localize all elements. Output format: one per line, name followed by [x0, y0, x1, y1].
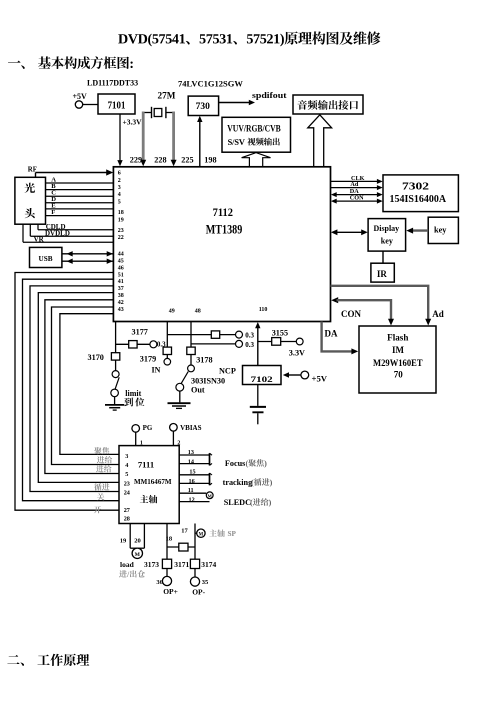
svg-text:28: 28 — [124, 516, 130, 523]
svg-text:DA: DA — [325, 328, 338, 338]
svg-text:key: key — [434, 225, 447, 235]
svg-text:6: 6 — [118, 171, 121, 177]
svg-text:45: 45 — [118, 258, 124, 264]
svg-text:3171: 3171 — [174, 560, 189, 569]
wire key to display — [412, 229, 429, 231]
svg-text:303ISN30: 303ISN30 — [191, 376, 225, 385]
pin labels bottom edge — [169, 307, 268, 315]
svg-text:IM: IM — [392, 345, 405, 355]
svg-text:198: 198 — [204, 155, 216, 164]
buffer U730 — [188, 96, 218, 115]
ground under 303ISN30 switch — [168, 402, 191, 404]
svg-text:17: 17 — [181, 527, 188, 534]
resistor 3179 IN branch — [166, 322, 168, 348]
svg-text:M: M — [135, 552, 141, 558]
svg-text:4: 4 — [118, 192, 121, 198]
svg-text:3.3V: 3.3V — [289, 348, 305, 357]
wire Ad to 7302 — [331, 187, 379, 189]
svg-text:SLEDC: SLEDC — [224, 498, 251, 507]
sled motor output wires pins 11 12 — [179, 492, 206, 494]
grey labels on bus wires — [94, 447, 109, 454]
svg-text:3170: 3170 — [88, 353, 104, 362]
svg-text:MM16467M: MM16467M — [134, 478, 172, 486]
pin labels top edge — [130, 155, 217, 164]
svg-text:key: key — [381, 236, 394, 245]
0.3 terminal row from pin 48 — [191, 343, 236, 345]
svg-text:4: 4 — [125, 462, 128, 469]
svg-text:7302: 7302 — [402, 181, 429, 192]
svg-text:RF: RF — [28, 167, 37, 174]
section heading 1 — [8, 56, 133, 69]
svg-text:7102: 7102 — [251, 374, 273, 384]
svg-text:Flash: Flash — [387, 332, 408, 342]
svg-text:NCP: NCP — [219, 366, 236, 375]
svg-text:730: 730 — [196, 102, 211, 112]
svg-text:7111: 7111 — [138, 461, 154, 470]
wire CON chip to flash — [331, 297, 338, 303]
bus wire 2 chip to motor driver — [23, 279, 120, 501]
capacitor under 7102 — [257, 385, 259, 406]
wire chip to display bidirectional — [335, 231, 364, 233]
resistor 3155 row with 3.3V terminal — [258, 341, 296, 343]
svg-text:5: 5 — [125, 471, 128, 478]
svg-text:OP+: OP+ — [163, 587, 178, 596]
reset IC U7102 — [243, 366, 282, 385]
svg-text:70: 70 — [394, 370, 404, 380]
svg-text:MT1389: MT1389 — [206, 223, 243, 237]
svg-text:27: 27 — [124, 507, 130, 514]
wire DA chip to flash — [322, 322, 353, 352]
wire spdifout — [219, 102, 250, 104]
wire 7102 to pin 110 — [257, 326, 259, 365]
IC U7112 MT1389 main decoder — [113, 167, 330, 322]
svg-text:12: 12 — [189, 496, 195, 503]
svg-text:23: 23 — [118, 228, 124, 234]
load motor wires pins 19 20 — [129, 524, 131, 549]
svg-text:IR: IR — [377, 269, 388, 279]
wire CLK to 7302 — [331, 180, 379, 182]
wire VR — [22, 224, 24, 242]
svg-text:0.3: 0.3 — [245, 331, 254, 339]
svg-text:42: 42 — [118, 300, 124, 306]
svg-text:229: 229 — [130, 155, 142, 164]
svg-text:3177: 3177 — [132, 327, 148, 336]
svg-text:7112: 7112 — [213, 205, 233, 219]
svg-text:+3.3V: +3.3V — [123, 118, 143, 127]
0.3 terminal row from pin 49 — [167, 334, 235, 336]
svg-text:+5V: +5V — [73, 92, 88, 101]
svg-text:3179: 3179 — [140, 355, 156, 364]
bus wire 1 chip to motor driver — [15, 273, 119, 511]
svg-text:74LVC1G12SGW: 74LVC1G12SGW — [178, 79, 243, 89]
svg-text:43: 43 — [118, 307, 124, 313]
key box — [428, 217, 458, 243]
svg-text:spdifout: spdifout — [252, 91, 287, 100]
svg-text:Display: Display — [374, 224, 400, 233]
wire crystal to pin 228 — [142, 112, 145, 162]
svg-text:24: 24 — [124, 490, 130, 497]
svg-text:51: 51 — [118, 272, 124, 278]
svg-text:USB: USB — [39, 254, 53, 263]
svg-text:DVDLD: DVDLD — [45, 229, 70, 237]
bus wire 4 chip to motor driver — [38, 293, 119, 483]
+5V terminal to 7102 — [301, 371, 309, 379]
tracking actuator output wires pins 15 16 — [179, 474, 209, 476]
svg-text:LD1117DDT33: LD1117DDT33 — [87, 79, 138, 88]
svg-text:IN: IN — [152, 365, 161, 374]
SDRAM IC U7302 154IS16400A — [383, 175, 458, 212]
IR receiver box — [382, 251, 384, 263]
svg-text:tracking: tracking — [223, 478, 253, 487]
svg-text:F: F — [51, 209, 55, 216]
svg-text:20: 20 — [134, 537, 141, 544]
flash memory IC M29W160ET — [359, 326, 436, 393]
load motor M — [130, 547, 144, 549]
svg-text:225: 225 — [181, 155, 193, 164]
wire Ad chip to flash — [331, 286, 429, 320]
svg-text:OP-: OP- — [192, 587, 205, 596]
display key box — [368, 219, 406, 252]
svg-text:Ad: Ad — [350, 181, 358, 188]
svg-text:Out: Out — [191, 385, 205, 394]
svg-text:3178: 3178 — [196, 355, 212, 364]
wire CDLD — [37, 224, 39, 230]
wire crystal to pin 225 — [172, 112, 175, 162]
svg-text:VR: VR — [34, 235, 45, 243]
resistor 3174 and OP- terminal — [194, 547, 196, 577]
wire DVDLD — [29, 224, 31, 236]
svg-text:36: 36 — [156, 579, 163, 586]
resistor 3177 row with 0.3 terminal — [116, 343, 150, 345]
title text DVD(57541,57531,57521) — [118, 31, 380, 46]
wires A-F photodiode signals — [46, 182, 114, 184]
svg-text:5: 5 — [118, 200, 121, 206]
svg-text:110: 110 — [259, 307, 268, 313]
USB box — [30, 247, 62, 267]
wire CON to 7302 bidirectional — [335, 200, 379, 202]
svg-text:35: 35 — [202, 579, 209, 586]
hollow arrow chip to audio connector — [308, 115, 332, 167]
wire RF to pin 6 — [36, 172, 109, 174]
svg-text:37: 37 — [118, 286, 124, 292]
svg-text:2: 2 — [118, 178, 121, 184]
audio output connector box — [293, 95, 363, 114]
spindle motor SP — [195, 532, 197, 534]
pin labels right edge of 7111 — [188, 449, 196, 504]
bus wire 7 chip to motor driver — [60, 314, 119, 455]
wire +3.3V from 7101 to pin 229 — [119, 114, 121, 162]
svg-text:load: load — [120, 560, 135, 569]
resistor 3170 limit switch branch — [115, 322, 117, 353]
svg-text:46: 46 — [118, 265, 124, 271]
bus wire 5 chip to motor driver — [45, 300, 119, 474]
svg-text:19: 19 — [120, 537, 127, 544]
svg-text:49: 49 — [169, 308, 175, 314]
svg-text:18: 18 — [118, 210, 124, 216]
focus actuator output wires pins 13 14 — [179, 454, 209, 456]
svg-text:limit: limit — [125, 389, 141, 398]
svg-text:22: 22 — [118, 235, 124, 241]
svg-text:Focus: Focus — [225, 459, 245, 468]
svg-text:19: 19 — [118, 218, 124, 224]
svg-text:+5V: +5V — [312, 373, 328, 383]
hollow arrow chip to video box — [242, 153, 271, 167]
ground under limit switch — [105, 404, 124, 406]
IC U7111 MM16467M motor driver — [119, 446, 179, 524]
pin labels left edge — [118, 171, 124, 314]
regulator U7101 — [98, 94, 135, 114]
svg-text:0.3: 0.3 — [245, 341, 254, 349]
svg-text:M: M — [208, 493, 213, 498]
svg-text:M: M — [199, 533, 204, 538]
optical head box — [15, 177, 46, 224]
resistor 3173 and OP+ terminal — [166, 547, 168, 576]
wire pin 18 — [166, 524, 168, 548]
USB data wires to pins 44 45 — [62, 253, 114, 255]
svg-text:3174: 3174 — [201, 560, 216, 569]
terminal PG — [132, 425, 140, 433]
svg-text:7101: 7101 — [108, 101, 126, 112]
svg-text:3173: 3173 — [144, 560, 159, 569]
video output box VUV/RGB/CVB — [222, 117, 291, 152]
resistor 3171 bridge — [167, 546, 195, 548]
bus wire 6 chip to motor driver — [52, 307, 120, 465]
svg-text:3155: 3155 — [272, 328, 288, 337]
wire pin 17 — [194, 524, 196, 548]
svg-text:VUV/RGB/CVB: VUV/RGB/CVB — [227, 124, 280, 134]
terminal VBIAS — [170, 424, 178, 432]
bus wire 3 chip to motor driver — [30, 286, 119, 492]
svg-text:38: 38 — [118, 293, 124, 299]
svg-text:27M: 27M — [158, 91, 176, 101]
svg-text:44: 44 — [118, 251, 124, 257]
svg-text:Ad: Ad — [432, 309, 444, 319]
svg-text:SP: SP — [228, 530, 237, 538]
svg-text:3: 3 — [118, 185, 121, 191]
svg-text:18: 18 — [166, 536, 173, 543]
svg-text:3: 3 — [125, 453, 128, 460]
svg-text:41: 41 — [118, 279, 124, 285]
svg-text:PG: PG — [143, 424, 153, 432]
wire pin 198 to 730 — [199, 120, 201, 167]
svg-text:VBIAS: VBIAS — [180, 424, 202, 432]
resistor 3178 NCP 303ISN30 branch — [190, 322, 192, 348]
svg-text:CON: CON — [341, 309, 362, 319]
svg-text:154IS16400A: 154IS16400A — [390, 194, 447, 205]
svg-text:M29W160ET: M29W160ET — [373, 358, 423, 368]
svg-text:48: 48 — [195, 308, 201, 314]
svg-text:228: 228 — [154, 155, 166, 164]
wire DA to 7302 bidirectional — [335, 194, 379, 196]
svg-text:CON: CON — [350, 195, 364, 202]
section heading 2 — [7, 654, 89, 666]
svg-text:14: 14 — [188, 459, 194, 466]
svg-text:23: 23 — [124, 480, 130, 487]
